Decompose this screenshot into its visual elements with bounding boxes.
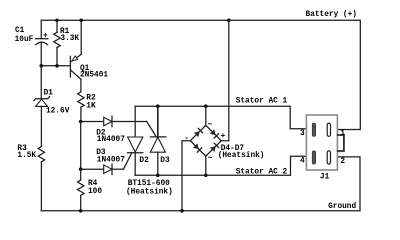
- capacitor C1: [15, 20, 48, 66]
- ground rail wire: [41, 210, 360, 212]
- junction dot bridge plus to battery rail: [227, 18, 231, 22]
- svg-text:R2: R2: [86, 95, 96, 103]
- wire R2 to D3 branch: [80, 122, 82, 170]
- svg-text:+: +: [43, 32, 48, 40]
- junction dot base node R1: [55, 64, 59, 68]
- diode D3 1N4007: [81, 149, 125, 174]
- junction dot base node left: [39, 64, 43, 68]
- svg-text:~: ~: [208, 122, 213, 130]
- junction dot bridge top: [204, 104, 208, 108]
- connector J1: [300, 115, 345, 182]
- svg-text:1: 1: [340, 130, 345, 138]
- svg-text:(Heatsink): (Heatsink): [126, 188, 173, 196]
- svg-text:1.5K: 1.5K: [17, 152, 36, 160]
- diode D2 1N4007: [81, 116, 147, 144]
- wire Q1 emitter to rail: [80, 20, 82, 54]
- svg-text:(Heatsink): (Heatsink): [218, 152, 265, 160]
- svg-text:Battery (+): Battery (+): [306, 11, 357, 19]
- bridge diode bottom-left: [193, 143, 202, 152]
- svg-text:3: 3: [300, 130, 305, 138]
- wire pin2 to ground: [337, 157, 360, 211]
- resistor R3: [17, 145, 44, 211]
- SCR D2 BT151: [128, 106, 150, 175]
- svg-text:3.3K: 3.3K: [60, 35, 79, 43]
- svg-text:10uF: 10uF: [15, 36, 34, 44]
- resistor R2: [78, 92, 96, 122]
- svg-text:2N5401: 2N5401: [80, 72, 108, 80]
- svg-text:+: +: [221, 133, 226, 141]
- svg-text:Ground: Ground: [328, 203, 356, 211]
- SCR D3 BT151: [150, 106, 170, 175]
- resistor R1: [54, 20, 80, 66]
- bridge rectifier D4-D7: [182, 20, 264, 211]
- bridge diode top-left: [194, 128, 203, 137]
- svg-text:Stator AC 1: Stator AC 1: [236, 98, 288, 106]
- svg-text:1N4007: 1N4007: [97, 136, 125, 144]
- svg-text:Stator AC 2: Stator AC 2: [236, 168, 288, 176]
- svg-text:-: -: [184, 135, 189, 143]
- wire stator AC 1: [135, 106, 306, 129]
- resistor R4: [78, 169, 103, 211]
- bridge diode bottom-right: [210, 143, 219, 152]
- svg-text:D3: D3: [160, 157, 170, 165]
- junction dot R2 bottom / D2 branch: [79, 120, 83, 124]
- zener D1: [34, 66, 70, 147]
- svg-text:BT151-600: BT151-600: [128, 180, 170, 188]
- svg-text:R4: R4: [88, 180, 98, 188]
- junction dot bridge bottom: [204, 174, 208, 178]
- svg-text:~: ~: [208, 155, 213, 163]
- svg-text:1K: 1K: [86, 102, 96, 110]
- bridge diode top-right: [210, 129, 219, 138]
- svg-text:2: 2: [340, 158, 345, 166]
- junction dot D3 branch: [79, 167, 83, 171]
- wire stator AC 2: [135, 156, 306, 175]
- svg-text:4: 4: [300, 158, 305, 166]
- wire Q1 collector to R2: [80, 79, 82, 92]
- wire D3 to SCR D2 gate: [124, 153, 132, 170]
- junction dot Q1 emitter top: [79, 18, 83, 22]
- svg-text:100: 100: [88, 188, 102, 196]
- svg-text:C1: C1: [15, 27, 25, 35]
- wire base node: [41, 65, 70, 67]
- svg-text:J1: J1: [320, 174, 330, 182]
- junction dot SCR D3 anode top: [156, 104, 160, 108]
- junction dot bridge minus to ground: [180, 209, 184, 213]
- junction dot SCR D3 cathode bottom: [156, 174, 160, 178]
- label BT151-600 (Heatsink): [126, 180, 173, 196]
- junction dot R1 top: [55, 18, 59, 22]
- svg-text:12.6V: 12.6V: [46, 107, 70, 115]
- transistor Q1: [70, 54, 108, 79]
- wire D2 to SCR D3 gate: [147, 122, 157, 137]
- svg-text:D2: D2: [139, 157, 149, 165]
- svg-text:1N4007: 1N4007: [97, 157, 125, 165]
- wire battery+ top rail: [41, 20, 360, 129]
- junction dot R4 bottom: [79, 209, 83, 213]
- svg-text:D1: D1: [44, 90, 54, 98]
